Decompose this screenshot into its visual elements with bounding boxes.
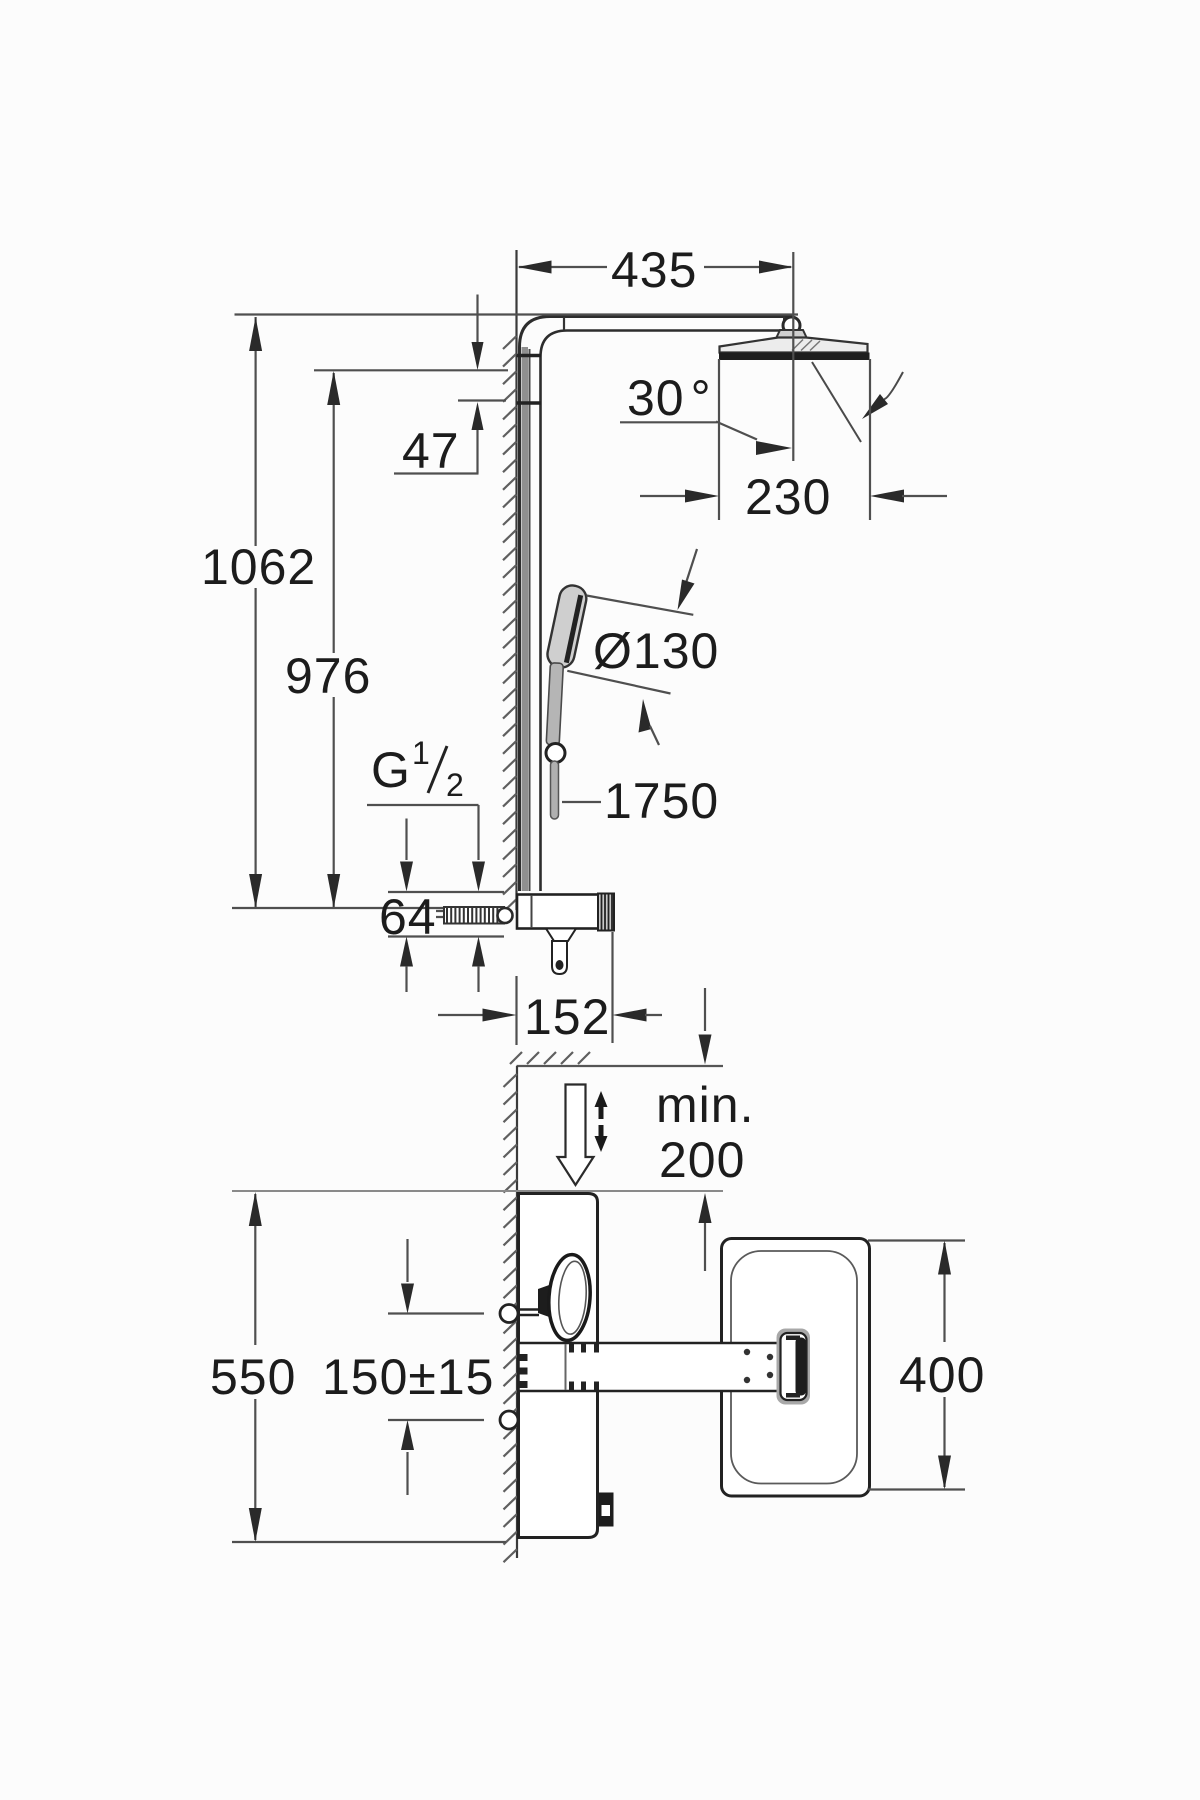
spray direction indicator bbox=[812, 362, 903, 442]
wall (lower section) bbox=[504, 1052, 724, 1562]
svg-text:1: 1 bbox=[412, 735, 430, 771]
shower valve trim plate bbox=[519, 1194, 598, 1538]
supply pipe (striped) bbox=[444, 907, 513, 924]
svg-text:200: 200 bbox=[659, 1132, 745, 1188]
top reference line bbox=[235, 313, 799, 315]
svg-text:30°: 30° bbox=[627, 370, 712, 426]
svg-text:230: 230 bbox=[745, 469, 831, 525]
dimension 150 plus-minus 15 bbox=[322, 1239, 494, 1495]
svg-text:152: 152 bbox=[524, 989, 610, 1045]
ball joint connector bbox=[783, 317, 785, 331]
svg-text:Ø130: Ø130 bbox=[593, 623, 719, 679]
dimension 550 bbox=[210, 1192, 506, 1542]
spout arm bbox=[519, 1343, 790, 1391]
spout end (aerator) bbox=[777, 1329, 811, 1405]
hose length label 1750 bbox=[562, 773, 719, 829]
svg-text:1750: 1750 bbox=[604, 773, 719, 829]
svg-text:400: 400 bbox=[899, 1347, 985, 1403]
dimension min. 200 bbox=[232, 988, 754, 1271]
dimension 400 bbox=[868, 1241, 985, 1490]
wall (upper section) bbox=[503, 250, 517, 912]
svg-text:G: G bbox=[371, 742, 411, 798]
control knob (side view) bbox=[519, 1253, 593, 1342]
dimension 230 bbox=[640, 359, 947, 525]
washbasin outline bbox=[722, 1239, 870, 1497]
svg-text:2: 2 bbox=[446, 767, 464, 803]
shower riser pipe bbox=[517, 317, 792, 892]
mounting clip on plate edge bbox=[599, 1493, 614, 1527]
svg-text:550: 550 bbox=[210, 1349, 296, 1405]
head shower bbox=[719, 330, 870, 360]
svg-text:976: 976 bbox=[285, 648, 371, 704]
svg-text:47: 47 bbox=[402, 423, 460, 479]
supply level reference line bbox=[232, 907, 445, 909]
hand shower bbox=[545, 583, 589, 819]
insertion arrow (hollow) bbox=[558, 1085, 594, 1186]
mixer valve body bbox=[517, 894, 614, 975]
lower supply elbow bbox=[500, 1411, 518, 1429]
dimension 152 bbox=[438, 932, 662, 1045]
adjustment double arrow bbox=[595, 1091, 608, 1152]
dimension 64 bbox=[379, 889, 504, 992]
svg-text:min.: min. bbox=[656, 1077, 754, 1133]
thread label G 1/2 bbox=[367, 735, 485, 892]
dimension diameter 130 bbox=[567, 549, 719, 745]
svg-text:435: 435 bbox=[611, 242, 697, 298]
upper supply elbow bbox=[500, 1305, 518, 1323]
svg-text:64: 64 bbox=[379, 889, 437, 945]
svg-text:1062: 1062 bbox=[201, 539, 316, 595]
dimension 1062 bbox=[201, 317, 316, 908]
dimension 47 bbox=[394, 295, 506, 480]
svg-text:150±15: 150±15 bbox=[322, 1349, 494, 1405]
dimension 976 bbox=[285, 370, 508, 908]
angle label 30 degrees bbox=[620, 370, 792, 455]
dimension 435 bbox=[518, 242, 794, 461]
